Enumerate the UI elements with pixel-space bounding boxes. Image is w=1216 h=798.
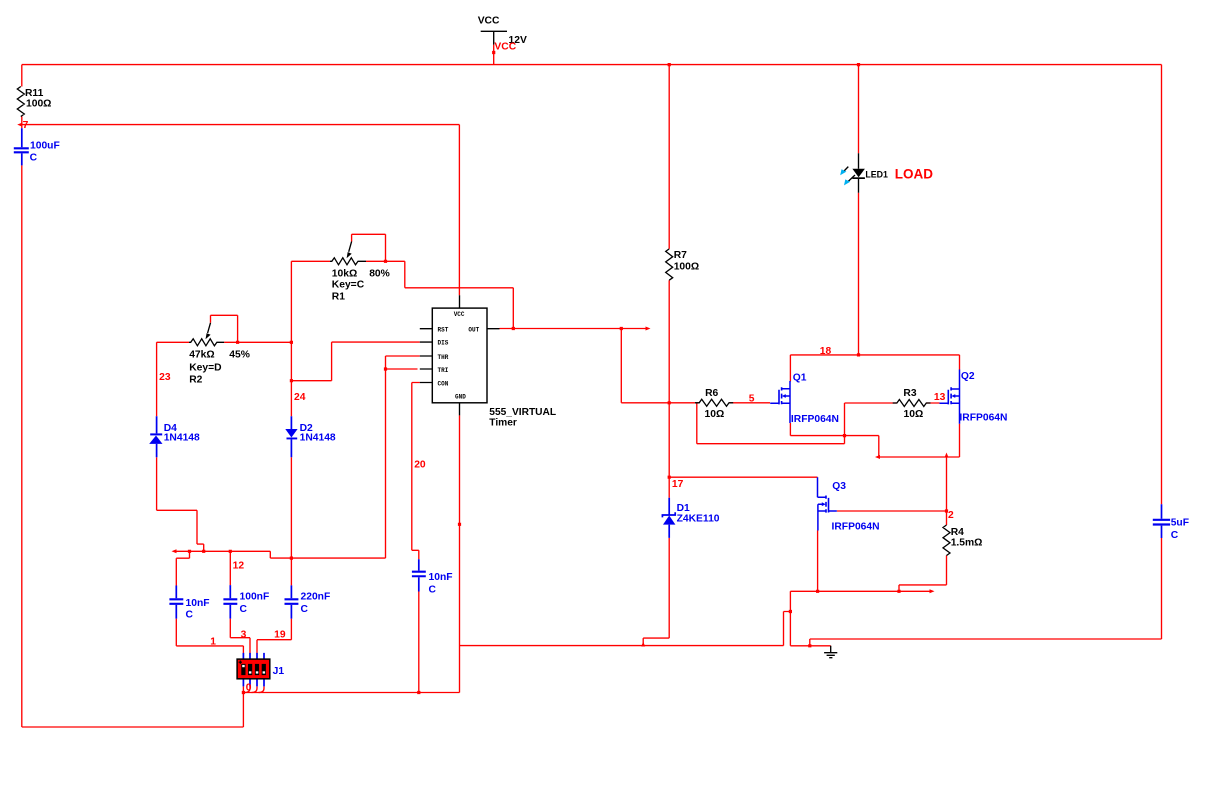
svg-text:Key=D: Key=D	[189, 363, 221, 374]
svg-text:C: C	[30, 152, 38, 163]
svg-text:80%: 80%	[369, 268, 390, 279]
svg-text:IRFP064N: IRFP064N	[959, 413, 1007, 424]
svg-text:100Ω: 100Ω	[26, 99, 51, 110]
svg-text:1N4148: 1N4148	[164, 433, 200, 444]
svg-text:18: 18	[820, 346, 832, 357]
svg-text:R11: R11	[25, 88, 44, 99]
svg-text:C: C	[240, 604, 248, 615]
svg-text:D1: D1	[677, 503, 690, 514]
svg-text:23: 23	[159, 372, 171, 383]
svg-text:R6: R6	[705, 388, 718, 399]
svg-text:24: 24	[294, 392, 306, 403]
svg-text:0: 0	[246, 682, 252, 693]
svg-text:IRFP064N: IRFP064N	[832, 521, 880, 532]
svg-text:3: 3	[241, 630, 247, 641]
svg-text:2: 2	[948, 510, 954, 521]
svg-text:Timer: Timer	[489, 417, 517, 428]
svg-text:C: C	[1171, 530, 1179, 541]
svg-text:20: 20	[414, 460, 426, 471]
svg-text:10nF: 10nF	[186, 598, 210, 609]
svg-text:Q1: Q1	[793, 372, 807, 383]
svg-text:5: 5	[749, 393, 755, 404]
svg-text:IRFP064N: IRFP064N	[791, 414, 839, 425]
svg-text:GND: GND	[455, 394, 466, 401]
svg-text:10kΩ: 10kΩ	[332, 268, 357, 279]
svg-text:R7: R7	[674, 250, 687, 261]
svg-text:TRI: TRI	[438, 367, 449, 374]
svg-text:R1: R1	[332, 292, 345, 303]
svg-text:R2: R2	[189, 374, 202, 385]
svg-text:Q2: Q2	[961, 371, 975, 382]
svg-text:100nF: 100nF	[240, 592, 270, 603]
svg-text:VCC: VCC	[478, 15, 500, 26]
svg-text:13: 13	[934, 392, 946, 403]
svg-text:12: 12	[233, 560, 245, 571]
svg-text:J1: J1	[273, 666, 285, 677]
svg-text:220nF: 220nF	[301, 592, 331, 603]
svg-text:45%: 45%	[229, 350, 250, 361]
svg-text:THR: THR	[438, 354, 449, 361]
svg-text:CON: CON	[438, 381, 449, 388]
svg-text:C: C	[301, 604, 309, 615]
svg-text:7: 7	[23, 120, 29, 131]
svg-text:C: C	[429, 584, 437, 595]
svg-text:Q3: Q3	[832, 481, 846, 492]
svg-text:Key=C: Key=C	[332, 280, 365, 291]
svg-text:R3: R3	[903, 388, 916, 399]
svg-text:10nF: 10nF	[429, 572, 453, 583]
svg-text:47kΩ: 47kΩ	[189, 350, 214, 361]
svg-text:10Ω: 10Ω	[705, 409, 725, 420]
svg-text:C: C	[186, 609, 194, 620]
svg-text:LED1: LED1	[865, 170, 888, 180]
svg-text:VCC: VCC	[494, 41, 516, 52]
svg-text:OUT: OUT	[468, 326, 479, 333]
svg-text:RST: RST	[438, 326, 449, 333]
svg-text:1N4148: 1N4148	[300, 433, 336, 444]
svg-text:5uF: 5uF	[1171, 517, 1189, 528]
svg-text:10Ω: 10Ω	[904, 409, 924, 420]
svg-text:VCC: VCC	[454, 311, 465, 318]
svg-text:100uF: 100uF	[30, 140, 60, 151]
svg-text:DIS: DIS	[438, 340, 449, 347]
svg-text:LOAD: LOAD	[895, 167, 933, 182]
svg-text:100Ω: 100Ω	[674, 262, 699, 273]
svg-text:17: 17	[672, 479, 684, 490]
svg-text:1.5mΩ: 1.5mΩ	[951, 537, 983, 548]
svg-text:1: 1	[210, 637, 216, 648]
svg-text:Z4KE110: Z4KE110	[677, 514, 720, 525]
svg-text:19: 19	[274, 630, 286, 641]
